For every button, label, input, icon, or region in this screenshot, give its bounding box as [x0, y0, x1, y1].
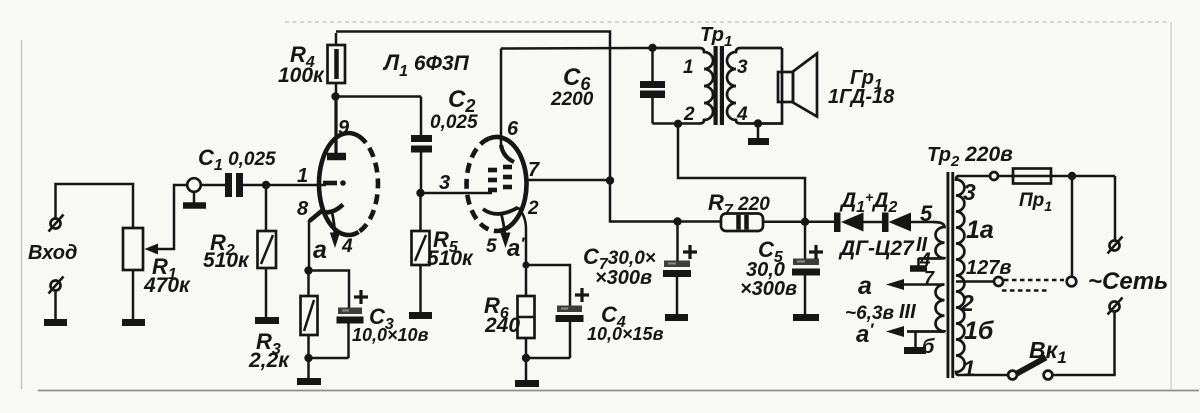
capacitor C6: [640, 48, 665, 124]
wire anode junction to C2: [336, 95, 421, 98]
node junction R3/C3 bottom: [304, 354, 312, 362]
node junction secondary ground: [754, 119, 762, 127]
node junction R4/anode/C2: [331, 92, 339, 100]
input terminal lower: [49, 277, 64, 294]
terminal circle tap riser: [1067, 277, 1077, 287]
svg-text:2,2к: 2,2к: [248, 349, 290, 372]
tube U2 anode pin 6: [501, 49, 514, 163]
svg-text:С1 0,025: С1 0,025: [198, 145, 276, 174]
capacitor C7 electrolytic: [663, 222, 691, 315]
wire cathode pin 8 down: [308, 220, 311, 271]
ground C5: [793, 314, 819, 321]
transformer Tp1 core: [714, 46, 725, 125]
dashed link 127в tap to selector: [1002, 280, 1064, 291]
svg-text:510к: 510к: [427, 247, 474, 270]
wire grid pin 3: [421, 192, 493, 195]
transformer Tp2 winding II: [919, 222, 945, 259]
wire C1 to tube grid pin 1: [243, 184, 326, 187]
svg-text:9: 9: [338, 117, 350, 139]
capacitor C3 electrolytic: [337, 308, 364, 359]
C4 plus sign: [575, 288, 589, 302]
diode D1: [834, 213, 864, 233]
svg-text:2: 2: [527, 198, 539, 219]
switch Вк1: [1008, 358, 1052, 380]
node junction screen/R7/C7: [673, 217, 681, 225]
svg-text:R7 220: R7 220: [708, 190, 770, 219]
ground R2: [255, 317, 279, 324]
svg-text:Л1 6Ф3П: Л1 6Ф3П: [382, 50, 470, 80]
svg-text:1ГД-18: 1ГД-18: [828, 86, 895, 108]
node junction C6/rail: [648, 44, 656, 52]
svg-text:1: 1: [963, 356, 975, 381]
tube U2 cathode: [483, 208, 518, 214]
wire D2 to winding II pin 5: [911, 221, 933, 224]
svg-text:7: 7: [528, 159, 540, 181]
ground R6: [515, 380, 539, 387]
wire C4 bottom to R6: [526, 357, 570, 360]
tube U2 heater arrow a': [500, 213, 510, 248]
svg-text:1a: 1a: [966, 216, 994, 244]
svg-text:a: a: [858, 272, 872, 300]
wire to C3 top: [309, 271, 350, 309]
svg-text:10,0×10в: 10,0×10в: [352, 325, 429, 345]
wire input upper to R1 top: [56, 184, 134, 228]
R1 wiper arrow wire from C1: [145, 185, 189, 255]
transformer Tp1 primary winding: [653, 48, 714, 124]
wire pin 1 to switch: [958, 374, 1009, 377]
resistor R3: [301, 271, 318, 359]
wire input lower to ground: [54, 291, 57, 320]
fuse Пр1: [998, 169, 1051, 184]
capacitor C1 plates: [201, 173, 243, 197]
wire cathode pin 2 down: [518, 208, 526, 266]
tube U2 grid electrodes: [488, 167, 512, 190]
svg-text:×300в: ×300в: [595, 267, 652, 289]
tube U1 heater arrow a: [330, 212, 340, 248]
tube U1 anode pin 9: [327, 97, 346, 157]
wire R7 to diodes: [763, 221, 834, 224]
ground R5: [409, 312, 432, 319]
wire R1 bottom to ground: [132, 270, 135, 319]
svg-text:4: 4: [341, 236, 353, 257]
svg-text:8: 8: [297, 198, 309, 220]
pin 7 wire to rail: [527, 179, 610, 182]
ground winding II pin 4: [910, 258, 927, 269]
ground winding III pin б: [904, 332, 926, 351]
wire R3 to ground: [307, 358, 310, 379]
node junction C1/R2: [262, 181, 270, 189]
svg-text:0,025: 0,025: [430, 112, 478, 133]
capacitor C2: [411, 97, 432, 194]
mains terminal upper: [1108, 237, 1123, 254]
speaker Гр1: [778, 54, 817, 117]
svg-text:Вход: Вход: [28, 242, 77, 264]
node junction pin7/rail: [606, 176, 614, 184]
svg-text:Вк1: Вк1: [1029, 337, 1067, 367]
svg-text:Тр2 220в: Тр2 220в: [927, 143, 1013, 170]
wire mains lower lead: [1052, 312, 1115, 376]
resistor R4: [328, 33, 346, 97]
svg-text:2: 2: [960, 290, 974, 316]
svg-text:240: 240: [484, 314, 520, 337]
wire R6 to ground: [525, 358, 528, 381]
svg-text:3: 3: [439, 172, 450, 194]
svg-text:a: a: [313, 236, 327, 264]
ground input lower: [44, 319, 67, 326]
wire 127в tap: [956, 280, 994, 283]
svg-text:5: 5: [486, 236, 497, 257]
svg-text:510к: 510к: [203, 249, 250, 272]
node junction cathode2/C4 top: [522, 261, 529, 268]
diode D2: [882, 213, 911, 233]
svg-text:1: 1: [683, 57, 694, 78]
svg-text:100к: 100к: [278, 64, 325, 87]
svg-text:3: 3: [963, 179, 976, 205]
transformer Tp2 winding III: [907, 285, 945, 332]
svg-text:2200: 2200: [550, 89, 594, 110]
resistor R6: [518, 265, 535, 358]
wire tap riser down: [1071, 176, 1074, 277]
svg-text:Пр1: Пр1: [1019, 190, 1052, 214]
ground R3: [297, 378, 321, 385]
wire mains upper lead: [1114, 176, 1117, 240]
wire fuse to mains corner: [1051, 175, 1115, 178]
svg-text:10,0×15в: 10,0×15в: [587, 324, 664, 344]
svg-text:ДГ-Ц27: ДГ-Ц27: [838, 237, 915, 260]
svg-text:a′: a′: [856, 320, 874, 348]
node junction R6/C4 bottom: [522, 354, 530, 362]
capacitor C4 electrolytic: [556, 306, 584, 359]
svg-text:×300в: ×300в: [740, 278, 797, 300]
terminal circle before fuse: [990, 172, 998, 180]
potentiometer R1: [123, 228, 143, 270]
svg-text:2: 2: [683, 104, 695, 125]
ground Tp1 secondary: [748, 124, 769, 142]
winding III top wire with arrow a: [886, 279, 945, 290]
ground R1: [122, 319, 145, 326]
C3 plus sign: [354, 290, 368, 304]
tube U2 pentode envelope: [467, 137, 527, 231]
node junction C2/R5/grid: [416, 189, 424, 197]
svg-text:1б: 1б: [964, 317, 995, 345]
input terminal upper: [49, 215, 64, 232]
tube U1 cathode: [310, 205, 344, 222]
wire R2 to ground: [265, 268, 268, 317]
C5 plus sign: [809, 245, 823, 259]
wire pin 3 to fuse: [958, 175, 990, 178]
wire to C4 top: [526, 265, 570, 306]
wire C3 bottom to R3: [309, 357, 349, 360]
winding III bottom arrow a': [886, 326, 904, 337]
transformer Tp2 primary winding 1a/1б: [956, 176, 965, 375]
resistor R5: [412, 193, 430, 312]
svg-text:III: III: [899, 301, 916, 323]
svg-text:~Сеть: ~Сеть: [1088, 268, 1168, 295]
tube U1 grid electrode: [323, 180, 346, 186]
node junction cathode/R3/C3 top: [304, 266, 312, 274]
svg-text:Д1+Д2: Д1+Д2: [839, 189, 897, 216]
node junction fuse/tap riser: [1068, 172, 1076, 180]
wire D1 to D2: [864, 221, 883, 224]
node junction C5/B+: [801, 218, 809, 226]
ground C7: [665, 314, 688, 321]
resistor R7: [721, 214, 763, 232]
wire anode rail to Tp1: [501, 47, 653, 50]
svg-text:5: 5: [920, 201, 933, 226]
resistor R2: [258, 188, 277, 268]
node junction Tp1 pin2 / B+ riser: [674, 120, 682, 128]
transformer Tp1 secondary winding: [727, 48, 782, 124]
svg-text:127в: 127в: [966, 257, 1011, 279]
capacitor C5 electrolytic: [792, 222, 820, 314]
svg-text:1: 1: [297, 165, 308, 187]
C7 plus sign: [683, 245, 697, 259]
svg-text:6: 6: [507, 118, 519, 140]
mains terminal lower: [1108, 298, 1123, 315]
svg-text:470к: 470к: [143, 274, 191, 297]
transformer Tp2 core: [947, 172, 955, 378]
tube U1 triode envelope: [319, 133, 378, 235]
terminal circle 127в tap: [994, 277, 1003, 286]
svg-text:б: б: [922, 336, 935, 358]
svg-text:3: 3: [737, 57, 748, 78]
wire top rail R4 to screen node: [336, 32, 721, 222]
capacitor C1 shield circle terminal: [183, 178, 206, 205]
svg-text:4: 4: [736, 104, 748, 125]
svg-text:a′: a′: [507, 234, 525, 262]
wire B+ riser to C5 node: [678, 124, 805, 222]
wire C6 bottom to Tp1 pin2: [653, 122, 701, 125]
